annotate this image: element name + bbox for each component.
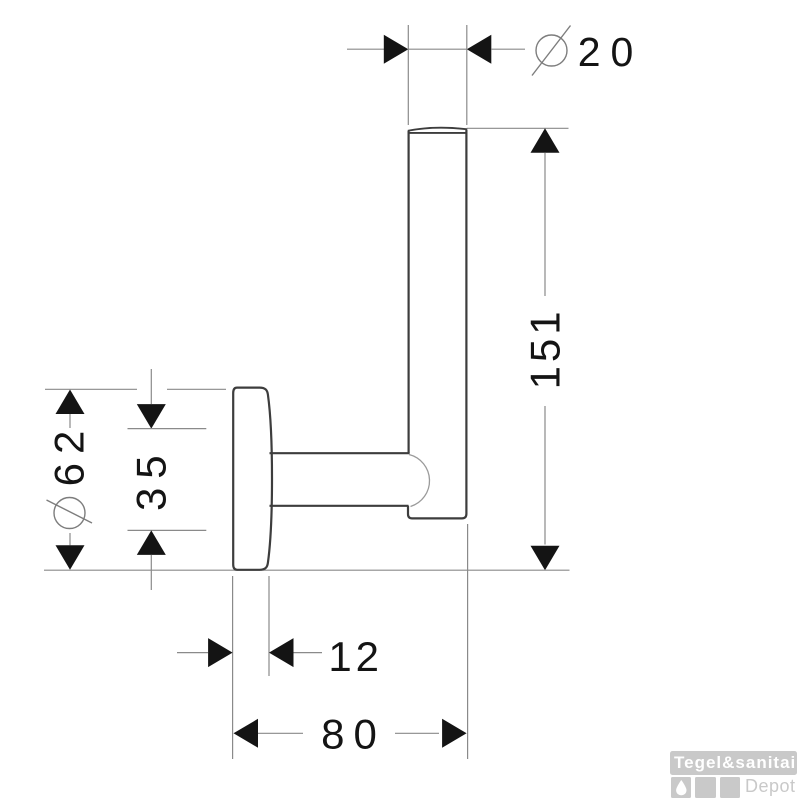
- label 35 (rotated): [128, 446, 175, 511]
- logo square 3: [720, 777, 741, 798]
- tube lower left step and bottom and right edge: [408, 130, 466, 518]
- reference line top tangent of plate for ⌀62 (left segment): [45, 388, 137, 390]
- elbow inner curve: [409, 455, 430, 507]
- logo square with drop icon: [671, 777, 692, 798]
- dimension line tail right of ⌀20: [491, 48, 525, 50]
- dimension line between ⌀20 arrows: [408, 48, 467, 50]
- arrowhead 80 left (pointing left): [234, 719, 259, 748]
- svg-text:12: 12: [328, 633, 383, 680]
- extension line plate right edge (for 12): [268, 576, 270, 676]
- dimension line 80 right segment: [395, 732, 439, 734]
- arrowhead 12 left (pointing right): [208, 638, 233, 667]
- arrowhead ⌀62 bottom (pointing down): [56, 545, 85, 570]
- label 62 (rotated): [46, 422, 93, 487]
- arrowhead ⌀20 right (pointing left): [467, 35, 492, 64]
- arrowhead 12 right (pointing left): [269, 638, 294, 667]
- reference line 35 top: [128, 428, 207, 430]
- dimension line 80 left segment: [258, 732, 303, 734]
- dimension line 35 below bottom arrow: [150, 555, 152, 590]
- arrowhead 80 right (pointing right): [442, 719, 467, 748]
- extension line tube right edge (for 80): [467, 524, 469, 759]
- dimension line tail left of ⌀20: [347, 48, 384, 50]
- extension line tube left edge: [407, 25, 409, 125]
- arm top edge: [270, 452, 410, 454]
- svg-text:80: 80: [321, 711, 386, 758]
- dimension line 151 upper segment: [544, 153, 546, 296]
- tube top seam: [409, 132, 467, 134]
- dimension line ⌀62 lower segment: [69, 533, 71, 545]
- svg-text:35: 35: [128, 446, 175, 511]
- svg-text:20: 20: [578, 29, 644, 75]
- arrowhead ⌀62 top (pointing up): [56, 390, 85, 415]
- dimension line 35 above top arrow: [150, 369, 152, 404]
- diameter symbol of ⌀62 (rotated): [47, 498, 93, 529]
- arrowhead ⌀20 left (pointing right): [384, 35, 409, 64]
- tube left edge: [408, 131, 410, 453]
- reference line top tangent of plate for ⌀62 (right segment): [167, 388, 226, 390]
- reference line bottom tangent of plate shared by ⌀62 and 151: [44, 569, 570, 571]
- arm bottom edge: [270, 505, 409, 507]
- extension line plate left edge (for 12 and 80): [232, 576, 234, 759]
- svg-text:151: 151: [521, 307, 568, 389]
- label 151 (rotated): [521, 307, 568, 389]
- dimension line ⌀62 upper segment: [69, 414, 71, 428]
- wall plate (side view): [233, 388, 272, 570]
- arrowhead 151 bottom (pointing down): [531, 546, 560, 571]
- tube top cap dome: [409, 128, 467, 133]
- svg-text:62: 62: [46, 422, 93, 487]
- arrowhead 35 top (pointing down): [137, 404, 166, 429]
- diameter symbol of ⌀20: [532, 26, 571, 76]
- logo square 2: [695, 777, 716, 798]
- reference line 35 bottom: [128, 529, 207, 531]
- logo text Depot: [745, 777, 799, 799]
- extension line tube right edge: [466, 25, 468, 125]
- reference line top of 151 dimension: [467, 127, 569, 129]
- arrowhead 151 top (pointing up): [531, 128, 560, 153]
- dimension line tail left of 12: [177, 652, 208, 654]
- arrowhead 35 bottom (pointing up): [137, 530, 166, 555]
- dimension line tail right of 12: [294, 652, 323, 654]
- dimension line 151 lower segment: [544, 406, 546, 545]
- logo band Tegel&sanitair: [670, 751, 797, 775]
